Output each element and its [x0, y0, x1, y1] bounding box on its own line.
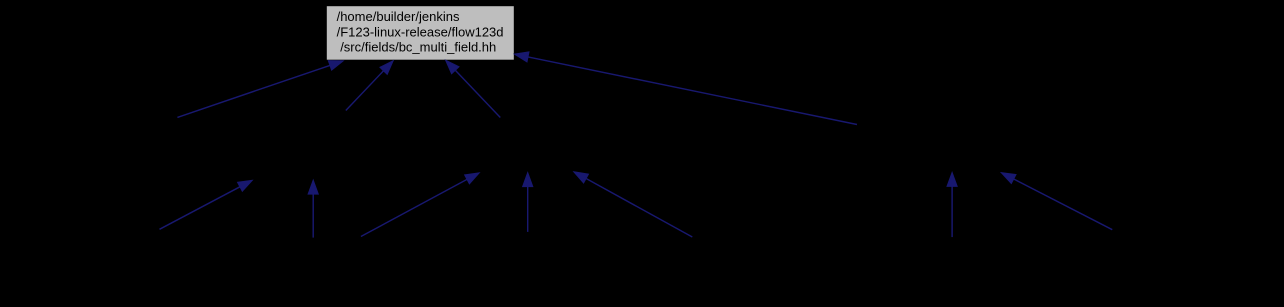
- edge B5 row3->row2: [574, 172, 693, 237]
- svg-text:/src/fields/bc_multi_field.hh: /src/fields/bc_multi_field.hh: [340, 40, 496, 55]
- edge B6 row3->row2 (vertical): [947, 172, 957, 237]
- edge B2 row3->row2 (vertical): [308, 180, 318, 238]
- edge E3 to bc_multi_field.hh: [446, 60, 501, 117]
- edge B7 row3->row2: [1001, 173, 1112, 230]
- edge E2 to bc_multi_field.hh: [346, 61, 393, 111]
- svg-text:/home/builder/jenkins: /home/builder/jenkins: [337, 9, 460, 24]
- edge B3 row3->row2: [361, 173, 479, 237]
- edge E4 to bc_multi_field.hh (from right node): [514, 52, 857, 125]
- edge E1 to bc_multi_field.hh (from left node): [177, 61, 343, 118]
- node: /home/builder/jenkins/F123-linux-release/flow123d/src/fields/bc_multi_field.hh (grey box): [327, 6, 514, 60]
- svg-text:/F123-linux-release/flow123d: /F123-linux-release/flow123d: [337, 24, 504, 39]
- edge B4 row3->row2 (vertical): [523, 173, 533, 232]
- edge B1 row3->row2: [160, 180, 253, 229]
